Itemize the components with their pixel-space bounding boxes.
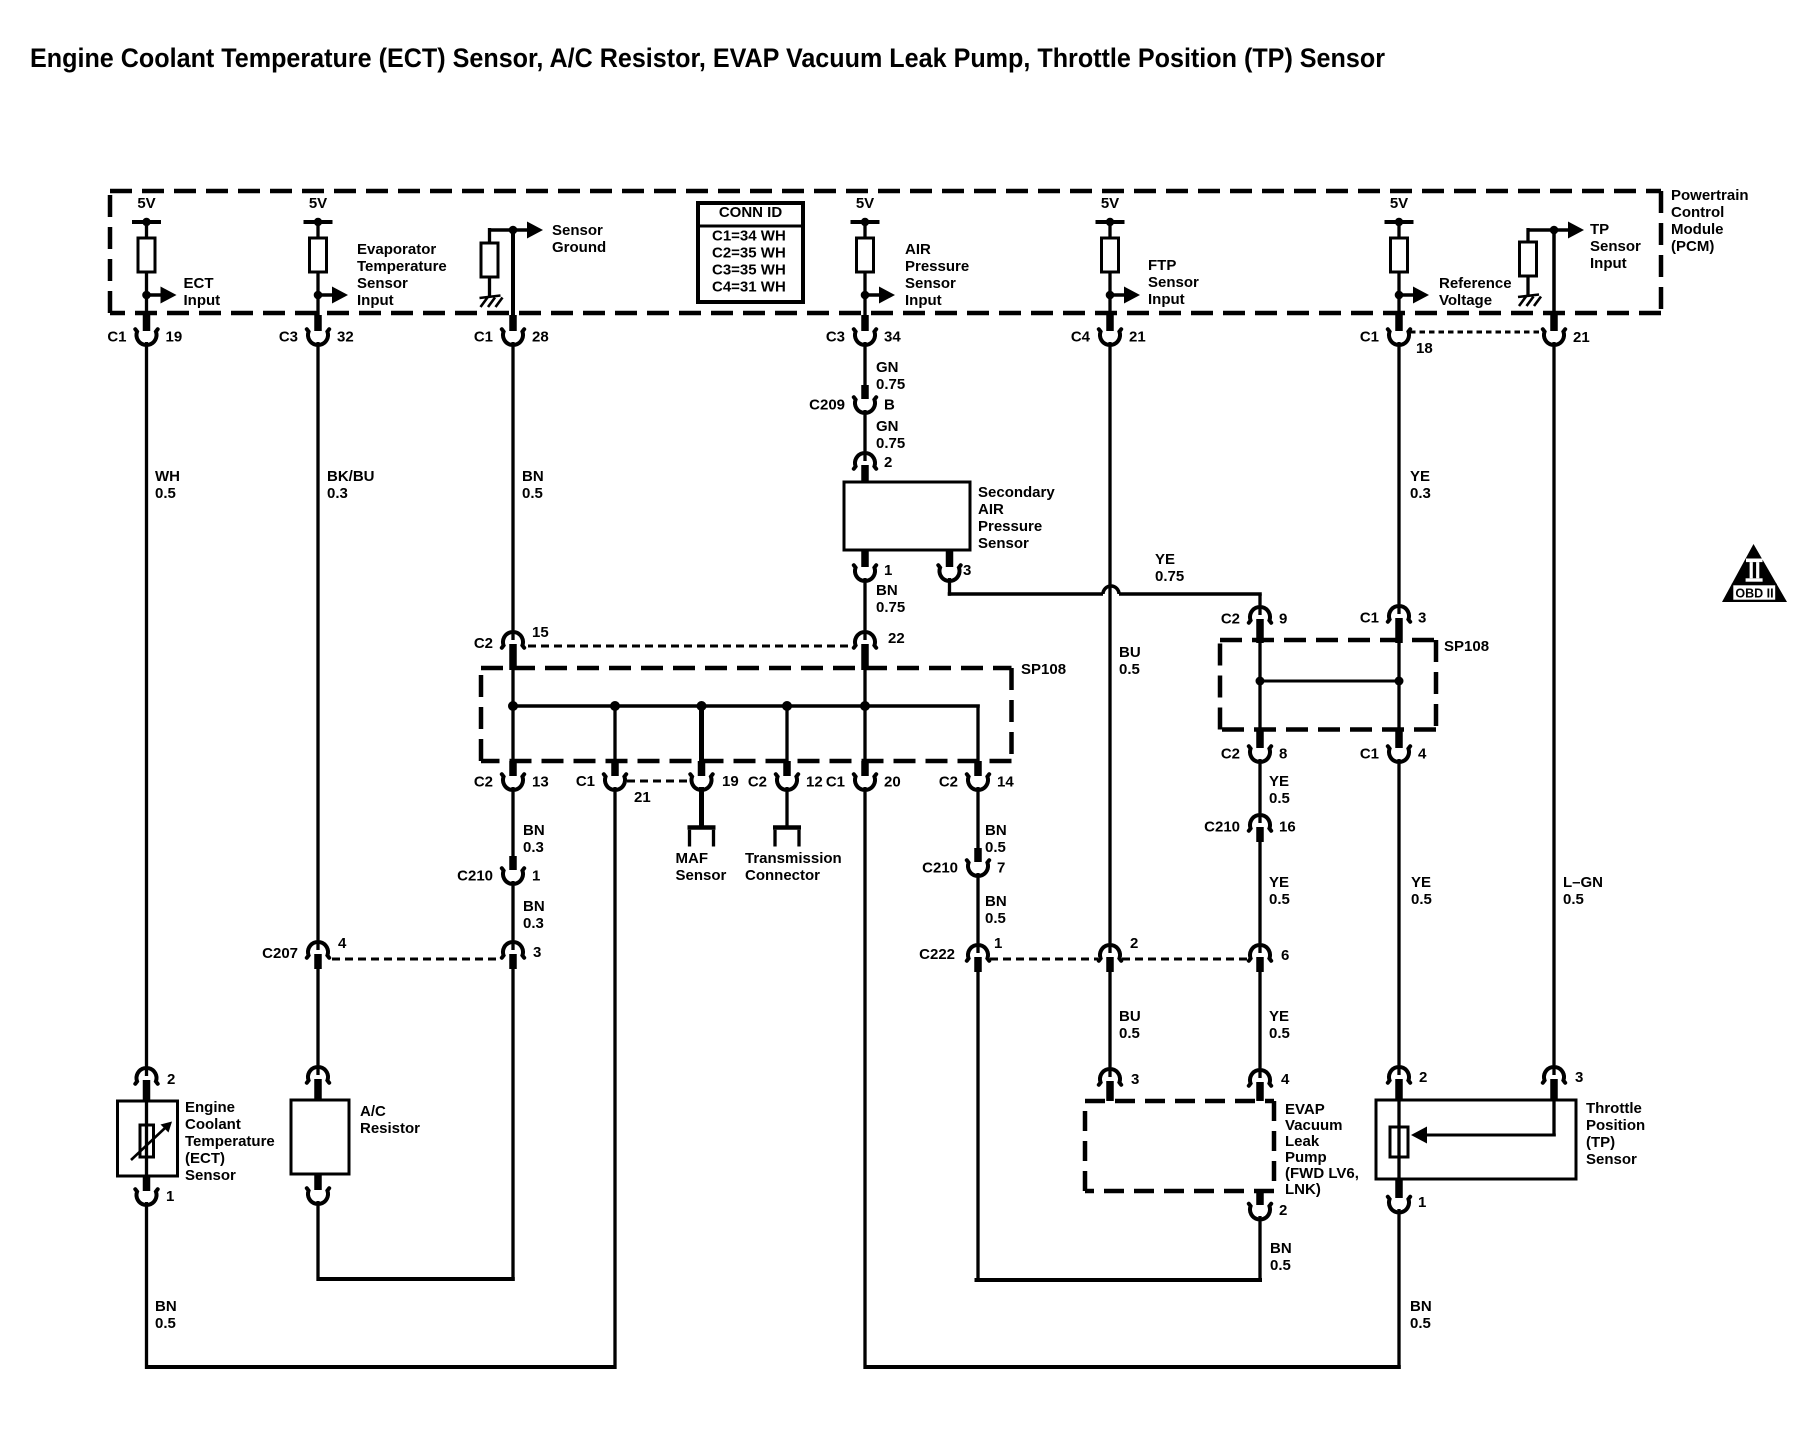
svg-text:5V: 5V: [309, 195, 327, 212]
svg-text:C4: C4: [1071, 328, 1091, 345]
svg-text:5V: 5V: [1101, 195, 1119, 212]
svg-text:BN0.5: BN0.5: [1410, 1298, 1432, 1332]
svg-text:BU0.5: BU0.5: [1119, 644, 1141, 678]
wire C2 15 into splice: [511, 670, 514, 708]
ECT sensor box: [118, 1101, 178, 1176]
connector C2 pin 8: [1256, 731, 1264, 748]
connector C2 pin 15: [502, 632, 524, 648]
node TP input junction: [1550, 226, 1559, 235]
svg-text:C1: C1: [1360, 328, 1379, 345]
wire transmission pigtail: [785, 787, 788, 826]
potentiometer TP element: [1390, 1127, 1408, 1157]
connector C2 pin 13: [502, 774, 524, 790]
wire C2 9 to C2 8: [1258, 643, 1261, 732]
svg-text:C207: C207: [262, 945, 298, 962]
wire evaporator signal: [316, 342, 319, 950]
TP wiper arrow: [1426, 1134, 1556, 1137]
svg-text:C1: C1: [1360, 609, 1379, 626]
svg-text:3: 3: [1575, 1069, 1583, 1086]
svg-text:SP108: SP108: [1444, 638, 1489, 655]
connector TP sensor pin 2: [1388, 1067, 1410, 1083]
CONN ID separator: [698, 225, 803, 228]
svg-text:YE0.5: YE0.5: [1269, 874, 1290, 908]
svg-text:14: 14: [997, 773, 1014, 790]
svg-text:C2: C2: [748, 773, 767, 790]
svg-text:2: 2: [1419, 1069, 1427, 1086]
svg-text:C1: C1: [1360, 745, 1379, 762]
svg-text:BU0.5: BU0.5: [1119, 1008, 1141, 1042]
svg-text:BN0.3: BN0.3: [523, 898, 545, 932]
connector TP sensor pin 3: [1543, 1067, 1565, 1083]
connector ECT sensor pin 2: [135, 1068, 157, 1084]
wire sensor ground feed: [488, 228, 513, 232]
svg-text:34: 34: [884, 328, 901, 345]
connector C222 pin 2: [1099, 945, 1121, 961]
svg-text:3: 3: [1131, 1071, 1139, 1088]
svg-text:20: 20: [884, 773, 901, 790]
wire MAF pigtail: [699, 787, 704, 826]
wire C207 3 down: [511, 969, 514, 1281]
svg-text:C210: C210: [1204, 818, 1240, 835]
wire AIR pin 1 down: [863, 578, 866, 640]
connector C210 pin 1: [502, 868, 524, 884]
connector C1 pin 20: [854, 774, 876, 790]
svg-text:4: 4: [1418, 745, 1427, 762]
connector EVAP pin 3: [1099, 1069, 1121, 1085]
connector C3 pin 34: [861, 315, 869, 331]
terminal MAF sensor: [688, 825, 716, 830]
svg-text:C3: C3: [826, 328, 845, 345]
connector C210 pin 7: [967, 860, 989, 876]
svg-text:21: 21: [1129, 328, 1146, 345]
svg-text:19: 19: [722, 773, 739, 790]
connector C2 pin 9: [1249, 607, 1271, 623]
svg-text:C209: C209: [809, 396, 845, 413]
connector C207 pin 4: [307, 942, 329, 958]
svg-text:6: 6: [1281, 947, 1289, 964]
wire C207 to AC resistor: [316, 969, 319, 1075]
ground PCM sensor ground: [480, 296, 503, 308]
wire TP input signal: [1552, 342, 1555, 1075]
svg-text:3: 3: [533, 944, 541, 961]
connector AC resistor bottom pin: [314, 1174, 322, 1190]
svg-text:YE0.3: YE0.3: [1410, 468, 1431, 502]
svg-text:4: 4: [1281, 1071, 1290, 1088]
svg-text:2: 2: [167, 1071, 175, 1088]
connector AC resistor top pin: [307, 1067, 329, 1083]
wire tap to C1 21: [613, 706, 616, 761]
connector C209 pin B: [854, 397, 876, 413]
connector EVAP pin 4: [1249, 1070, 1271, 1086]
secondary AIR pressure sensor box: [844, 482, 970, 550]
svg-text:C1: C1: [474, 328, 493, 345]
svg-text:5V: 5V: [1390, 195, 1408, 212]
wire C1 4 to TP pin 2: [1397, 759, 1400, 1075]
wire C2 13 to C210 1: [511, 787, 514, 856]
wire ECT sensor ground lead: [145, 1202, 148, 1369]
thermistor ECT element: [140, 1125, 154, 1157]
CONN ID box: [698, 203, 803, 302]
wire splice to C2 13: [511, 708, 514, 761]
wire C2 14 to C210 7: [976, 787, 979, 848]
svg-text:1: 1: [166, 1188, 174, 1205]
svg-text:ThrottlePosition(TP)Sensor: ThrottlePosition(TP)Sensor: [1586, 1100, 1645, 1168]
svg-text:C210: C210: [922, 859, 958, 876]
wire ECT signal: [145, 342, 148, 1076]
wire C2 8 to C210 16: [1258, 759, 1261, 823]
connector C2 pin 12: [776, 774, 798, 790]
connector C1 pin 21 TP: [1550, 315, 1558, 331]
connector AIR sensor pin 2: [854, 453, 876, 469]
svg-text:13: 13: [532, 773, 549, 790]
svg-text:BN0.5: BN0.5: [1270, 1240, 1292, 1274]
svg-text:C2: C2: [939, 773, 958, 790]
wire TP resistor to ground: [1526, 276, 1529, 296]
arrow TP input: [1554, 228, 1570, 232]
svg-text:SP108: SP108: [1021, 661, 1066, 678]
svg-text:28: 28: [532, 328, 549, 345]
svg-text:21: 21: [634, 789, 651, 806]
connector MAF pin 19: [690, 774, 712, 790]
node splice right right junction: [1395, 677, 1404, 686]
node bus junction C1 21 tap: [610, 701, 620, 711]
svg-text:OBD II: OBD II: [1735, 587, 1773, 601]
dashed link C222 pins 2-6: [1122, 958, 1248, 961]
connector C1 pin 21: [604, 774, 626, 790]
PCM module box: [110, 189, 1661, 194]
node splice right left junction: [1256, 677, 1265, 686]
connector C2 pin 14: [967, 774, 989, 790]
svg-text:C2: C2: [1221, 610, 1240, 627]
svg-text:4: 4: [338, 935, 347, 952]
svg-text:C2: C2: [474, 773, 493, 790]
wire tap to C2 12: [785, 706, 788, 761]
svg-text:5V: 5V: [856, 195, 874, 212]
svg-text:CONN ID: CONN ID: [719, 204, 783, 221]
EVAP vacuum leak pump box: [1085, 1099, 1274, 1104]
wire AIR sensor feed: [863, 342, 866, 385]
svg-text:BN0.3: BN0.3: [523, 822, 545, 856]
svg-text:C1: C1: [826, 773, 845, 790]
node sensor ground junction: [509, 226, 518, 235]
connector TP sensor pin 1: [1395, 1179, 1403, 1198]
connector C207 pin 3: [502, 942, 524, 958]
OBD II symbol: [1722, 544, 1787, 602]
svg-text:C222: C222: [919, 946, 955, 963]
splice SP108 center box: [481, 666, 1012, 671]
dashed link C222 pins 1-2: [990, 958, 1098, 961]
connector C1 pin 19: [143, 315, 151, 331]
svg-text:C3: C3: [279, 328, 298, 345]
svg-text:2: 2: [884, 454, 892, 471]
svg-text:2: 2: [1279, 1202, 1287, 1219]
wire C210 1 to C207 3: [511, 881, 514, 950]
wire EVAP bottom horizontal: [975, 1278, 1263, 1282]
connector C1 pin 4: [1395, 731, 1403, 748]
svg-text:2: 2: [1130, 935, 1138, 952]
wire bus corner to C2 14: [976, 705, 979, 707]
wire inside ECT sensor: [145, 1101, 148, 1176]
connector C222 pin 6: [1249, 945, 1271, 961]
wire YE 0.75 right segment: [1119, 592, 1262, 596]
svg-text:BN0.5: BN0.5: [985, 822, 1007, 856]
wire C222 1 down: [976, 972, 979, 1282]
svg-text:21: 21: [1573, 329, 1590, 346]
dashed link C1 pins 18-21: [1410, 331, 1544, 334]
connector ECT sensor pin 1: [143, 1176, 151, 1191]
svg-text:15: 15: [532, 624, 549, 641]
svg-text:C2: C2: [474, 635, 493, 652]
connector EVAP pin 2: [1256, 1191, 1264, 1205]
dashed link C2 pins 15-22: [528, 645, 853, 648]
node splice SP108 left end: [508, 701, 518, 711]
splice SP108 right box: [1220, 638, 1436, 643]
wire splice to C1 20: [863, 708, 866, 761]
svg-text:22: 22: [888, 630, 905, 647]
terminal transmission connector: [773, 825, 801, 830]
wire TP input vertical: [1552, 228, 1556, 315]
wire tap to MAF pin 19: [699, 706, 704, 761]
svg-text:3: 3: [963, 562, 971, 579]
svg-text:C2: C2: [1221, 745, 1240, 762]
svg-text:32: 32: [337, 328, 354, 345]
svg-text:7: 7: [997, 859, 1005, 876]
svg-text:1: 1: [1418, 1194, 1426, 1211]
wire TP pin 3 inside box: [1552, 1100, 1555, 1137]
wire C209 to sensor pin 2: [863, 410, 866, 461]
dashed link C207 pins 4-3: [332, 958, 501, 961]
svg-text:18: 18: [1416, 340, 1433, 357]
svg-text:12: 12: [806, 773, 823, 790]
wire C210 16 to C222 6: [1258, 842, 1261, 953]
connector C1 pin 18: [1395, 315, 1403, 331]
connector C1 pin 28: [509, 315, 517, 331]
svg-text:1: 1: [532, 867, 540, 884]
wire pin 22 into splice: [863, 670, 866, 708]
svg-text:9: 9: [1279, 610, 1287, 627]
A/C resistor box: [291, 1100, 349, 1174]
wire C1 3 through splice: [1397, 643, 1400, 732]
node bus junction MAF tap: [697, 701, 707, 711]
connector C3 pin 32: [314, 315, 322, 331]
connector C222 pin 1: [967, 945, 989, 961]
wire splice bus: [512, 704, 980, 708]
svg-text:1: 1: [994, 935, 1002, 952]
svg-text:BN0.5: BN0.5: [522, 468, 544, 502]
connector C1 pin 3: [1388, 606, 1410, 622]
svg-text:5V: 5V: [137, 195, 155, 212]
wire C222 2 to EVAP pin 3: [1108, 972, 1111, 1077]
svg-text:1: 1: [884, 562, 892, 579]
resistor sensor ground pulldown: [481, 243, 498, 277]
wire bottom right horizontal: [864, 1365, 1401, 1369]
svg-text:B: B: [884, 396, 895, 413]
svg-text:YE0.5: YE0.5: [1411, 874, 1432, 908]
connector C4 pin 21: [1106, 315, 1114, 331]
connector AIR sensor pin 3: [946, 550, 954, 567]
resistor TP pulldown: [1520, 242, 1537, 276]
node bus junction transmission tap: [782, 701, 792, 711]
wire C1 20 to bottom: [863, 787, 866, 1369]
svg-text:YE0.5: YE0.5: [1269, 773, 1290, 807]
wire splice jumper: [1260, 680, 1399, 683]
wire C210 7 to C222 1: [976, 873, 979, 953]
wire sensor ground to splice: [511, 342, 514, 640]
svg-text:16: 16: [1279, 818, 1296, 835]
svg-text:3: 3: [1418, 609, 1426, 626]
connector splice pin 22: [854, 632, 876, 648]
wire AC bottom horizontal: [317, 1277, 515, 1281]
wire inside TP sensor: [1397, 1100, 1400, 1179]
wire C1 21 down: [613, 787, 616, 1369]
wire ECT bottom horizontal: [145, 1365, 617, 1369]
svg-text:C1: C1: [576, 773, 595, 790]
wire C222 6 to EVAP pin 4: [1258, 972, 1261, 1078]
wire AC resistor ground lead: [316, 1201, 319, 1281]
svg-text:C1=34 WHC2=35 WHC3=35 WHC4=31: C1=34 WHC2=35 WHC3=35 WHC4=31 WH: [712, 227, 786, 295]
svg-text:YE0.5: YE0.5: [1269, 1008, 1290, 1042]
thermistor arrow: [131, 1128, 165, 1160]
ground PCM TP input: [1518, 295, 1541, 307]
wire pin 3 corner: [948, 578, 951, 596]
node splice SP108 pin22 junction: [860, 701, 870, 711]
wire EVAP ground lead: [1258, 1216, 1261, 1282]
dashed link C1 pins 21-19: [627, 780, 688, 783]
svg-text:19: 19: [166, 328, 183, 345]
svg-text:Engine Coolant Temperature (EC: Engine Coolant Temperature (ECT) Sensor,…: [30, 43, 1385, 73]
wire FTP signal: [1108, 342, 1111, 953]
TP sensor box: [1376, 1100, 1576, 1179]
arrow sensor ground: [513, 228, 529, 232]
wire TP pulldown feed: [1527, 228, 1555, 232]
wire TP ground lead: [1397, 1209, 1400, 1369]
wire hop over FTP wire: [1103, 586, 1119, 594]
wire sensor ground vertical: [511, 228, 515, 315]
svg-text:BN0.5: BN0.5: [985, 893, 1007, 927]
connector AIR sensor pin 1: [861, 550, 869, 567]
svg-text:8: 8: [1279, 745, 1287, 762]
wire reference voltage: [1397, 342, 1400, 614]
svg-text:BN0.5: BN0.5: [155, 1298, 177, 1332]
wire splice to C2 14: [976, 705, 979, 762]
svg-text:C1: C1: [107, 328, 126, 345]
svg-text:C210: C210: [457, 867, 493, 884]
connector C210 pin 16: [1249, 815, 1271, 831]
wire resistor to ground: [488, 277, 491, 297]
svg-text:SensorGround: SensorGround: [552, 222, 606, 256]
